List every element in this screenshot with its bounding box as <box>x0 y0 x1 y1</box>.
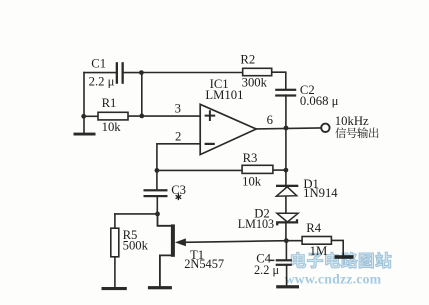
svg-text:R4: R4 <box>306 221 321 235</box>
diode D1 <box>276 185 298 197</box>
node pin3 junction <box>139 114 144 119</box>
node C3-R5-drain junction <box>155 212 160 217</box>
op-amp U1 LM101 triangle <box>200 104 256 154</box>
wire R1 to op-amp pin 3 <box>128 115 200 117</box>
svg-text:500k: 500k <box>123 239 149 253</box>
capacitor C2 <box>275 89 296 97</box>
wire gate node to T1 gate <box>185 241 286 243</box>
output terminal circle <box>321 124 329 132</box>
node feedback junction <box>155 168 160 173</box>
transistor T1 gate arrow <box>175 238 186 246</box>
capacitor C3 <box>144 189 168 197</box>
svg-text:10k: 10k <box>102 120 122 134</box>
wire C3 bottom lead <box>156 196 158 214</box>
wire R5 top lead <box>114 214 116 228</box>
wire top rail C1 to R2 <box>141 72 242 74</box>
op-amp plus input marking <box>205 110 216 121</box>
svg-text:LM101: LM101 <box>205 88 243 102</box>
wire op-amp pin 2 to feedback node <box>157 144 200 171</box>
svg-text:10k: 10k <box>242 175 262 189</box>
svg-text:300k: 300k <box>242 76 268 90</box>
wire T1 source lead to ground <box>160 255 171 286</box>
label xin hao shu chu (signal output) <box>335 127 378 138</box>
wire R4 right lead to ground <box>331 240 343 255</box>
wire R2 right lead to C2 <box>272 72 286 89</box>
svg-text:0.068 μ: 0.068 μ <box>300 94 339 108</box>
wire R1 left lead <box>84 115 98 117</box>
svg-text:1N914: 1N914 <box>303 186 338 200</box>
svg-text:C1: C1 <box>91 57 106 71</box>
wire T1 drain lead <box>158 214 171 226</box>
svg-text:2.2 μ: 2.2 μ <box>89 75 115 89</box>
resistor R4 <box>302 237 331 245</box>
wire R4 left lead <box>286 240 302 242</box>
wire gate node to C4 <box>285 241 287 260</box>
svg-text:R2: R2 <box>240 53 255 67</box>
op-amp minus input marking <box>205 143 215 145</box>
node output pin6 junction <box>284 126 289 131</box>
ground below R1 node <box>74 133 96 136</box>
resistor R2 <box>243 68 272 75</box>
wire right rail C2 to gate node <box>285 95 287 241</box>
svg-text:2.2 μ: 2.2 μ <box>254 263 279 277</box>
svg-text:R3: R3 <box>243 151 258 165</box>
svg-text:R1: R1 <box>102 96 117 110</box>
node R3 right junction <box>284 168 289 173</box>
capacitor C1 <box>116 62 124 84</box>
ground below R5 <box>102 287 127 290</box>
wire C1 node down to pin3 node <box>141 73 143 116</box>
svg-text:2N5457: 2N5457 <box>184 257 224 271</box>
capacitor C4 <box>270 259 292 266</box>
wire feedback rail to R3 <box>157 169 242 171</box>
svg-text:3: 3 <box>175 102 181 116</box>
asterisk mark of C3 <box>176 194 182 200</box>
wire left rail down to ground <box>83 73 85 133</box>
ground below C4 <box>276 285 299 288</box>
wire C3 node to R5 <box>115 213 158 215</box>
wire op-amp output to terminal <box>256 127 321 130</box>
svg-text:10kHz: 10kHz <box>335 114 369 128</box>
svg-text:6: 6 <box>267 113 273 127</box>
wire R3 right lead <box>273 169 286 171</box>
svg-text:www.cndzz.com: www.cndzz.com <box>285 272 382 287</box>
diode D2 (zener) <box>277 213 298 225</box>
ground below T1 source <box>148 286 172 289</box>
node gate-R4-C4 junction <box>284 238 289 243</box>
resistor R5 <box>111 228 119 257</box>
svg-text:LM103: LM103 <box>238 217 274 231</box>
resistor R1 <box>98 112 128 120</box>
node R1 left / ground junction <box>81 114 86 119</box>
svg-text:2: 2 <box>175 129 181 143</box>
ground below R4 right lead <box>335 255 354 259</box>
resistor R3 <box>242 165 273 173</box>
wire C1 left lead <box>84 72 116 74</box>
node C1-R2 junction <box>139 70 144 75</box>
transistor Q1 (T1) channel bar <box>171 224 175 256</box>
wire R5 bottom lead to ground <box>114 257 116 288</box>
wire C3 top lead <box>156 170 158 188</box>
wire C4 bottom lead to ground <box>286 265 288 286</box>
watermark line 1: dian zi dian lu tu zhan <box>291 252 391 268</box>
wire C1 right lead <box>124 72 142 74</box>
